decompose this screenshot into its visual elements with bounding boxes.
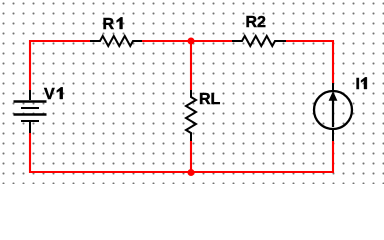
svg-text:RL: RL [199, 91, 221, 108]
svg-text:R: R [103, 16, 115, 33]
svg-text:I: I [356, 76, 360, 93]
svg-text:V: V [44, 86, 55, 103]
svg-text:R2: R2 [246, 14, 267, 31]
